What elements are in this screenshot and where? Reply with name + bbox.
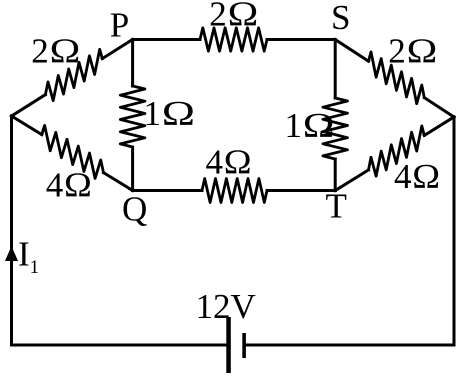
wire: lead from P down to left 1ohm resistor xyxy=(131,40,134,87)
wire: lead from right 1ohm resistor down to T xyxy=(334,159,337,191)
svg-text:2: 2 xyxy=(388,32,406,71)
svg-text:Ω: Ω xyxy=(303,107,335,146)
resistor right vertical 1ohm zigzag xyxy=(323,98,348,159)
label 4ohm bottom-middle xyxy=(206,143,252,182)
label 1ohm right xyxy=(285,106,335,145)
svg-text:Ω: Ω xyxy=(64,166,92,205)
wire: lead from bottom resistor to node T xyxy=(267,189,335,192)
wire: bottom right segment from battery short plate xyxy=(246,344,455,347)
label 2ohm top-left xyxy=(31,32,80,71)
resistor bottom-left diagonal 4ohm zigzag xyxy=(42,125,104,178)
wire: lead from S down to right 1ohm resistor xyxy=(334,40,337,99)
wire: lead from top-right 2ohm down to node R xyxy=(424,98,454,117)
resistor top-left diagonal 2ohm zigzag xyxy=(45,49,102,100)
svg-text:1: 1 xyxy=(144,94,162,133)
wire: right vertical from node R down to bottom-right corner xyxy=(453,117,456,345)
svg-text:Ω: Ω xyxy=(407,32,438,70)
label 2ohm top-right xyxy=(388,32,437,71)
wire: bottom left segment to battery long plate xyxy=(12,344,227,347)
svg-text:2: 2 xyxy=(209,0,227,34)
wire: lead from node P toward top resistor xyxy=(133,38,200,41)
svg-text:Ω: Ω xyxy=(228,0,259,34)
label 1ohm left xyxy=(144,94,196,133)
svg-text:Ω: Ω xyxy=(162,94,195,133)
wire: lead from top resistor to node S xyxy=(267,38,335,41)
wire: lead from bottom-right 4ohm up to node R xyxy=(424,117,454,135)
svg-text:1: 1 xyxy=(285,106,303,145)
current arrow I1 (points up) on left wire xyxy=(5,246,18,261)
svg-text:12V: 12V xyxy=(196,287,256,326)
svg-text:2: 2 xyxy=(31,32,49,71)
resistor left vertical 1ohm zigzag xyxy=(120,86,145,147)
resistor top-right diagonal 2ohm zigzag xyxy=(369,52,425,104)
resistor bottom-right diagonal 4ohm zigzag xyxy=(369,126,425,176)
svg-text:Ω: Ω xyxy=(224,143,252,182)
resistor bottom-middle 4ohm zigzag xyxy=(202,179,267,203)
svg-text:Ω: Ω xyxy=(412,157,440,196)
wire: lead from node T up toward bottom-right 4ohm xyxy=(335,170,368,191)
battery cell short plate (right, negative) xyxy=(242,333,246,358)
label 2ohm top-middle xyxy=(209,0,258,34)
wire: lead from node L down toward bottom-left 4ohm xyxy=(12,116,42,135)
wire: left vertical from node L down to bottom-left corner xyxy=(10,116,13,345)
svg-text:Ω: Ω xyxy=(50,32,81,70)
wire: lead from node Q toward bottom resistor xyxy=(133,189,202,192)
wire: lead from left 1ohm resistor down to Q xyxy=(131,147,134,191)
battery cell long plate (left, positive) xyxy=(226,317,231,373)
wire: lead from top-left 2ohm up to node P xyxy=(102,40,132,59)
wire: lead from node S down toward top-right 2ohm xyxy=(335,40,368,62)
wire: lead from node L up toward top-left 2ohm xyxy=(12,95,46,116)
svg-text:T: T xyxy=(326,187,347,226)
svg-text:Q: Q xyxy=(122,190,147,229)
svg-text:I1: I1 xyxy=(18,235,39,279)
wire: lead from bottom-left 4ohm down to node Q xyxy=(104,173,133,191)
svg-text:4: 4 xyxy=(46,166,64,205)
svg-text:4: 4 xyxy=(394,157,412,196)
svg-text:S: S xyxy=(331,0,350,37)
svg-text:4: 4 xyxy=(206,143,224,182)
svg-text:P: P xyxy=(110,6,129,45)
label 4ohm bottom-right xyxy=(394,157,440,196)
label 4ohm bottom-left xyxy=(46,166,92,205)
resistor top-middle 2ohm zigzag xyxy=(200,28,267,51)
